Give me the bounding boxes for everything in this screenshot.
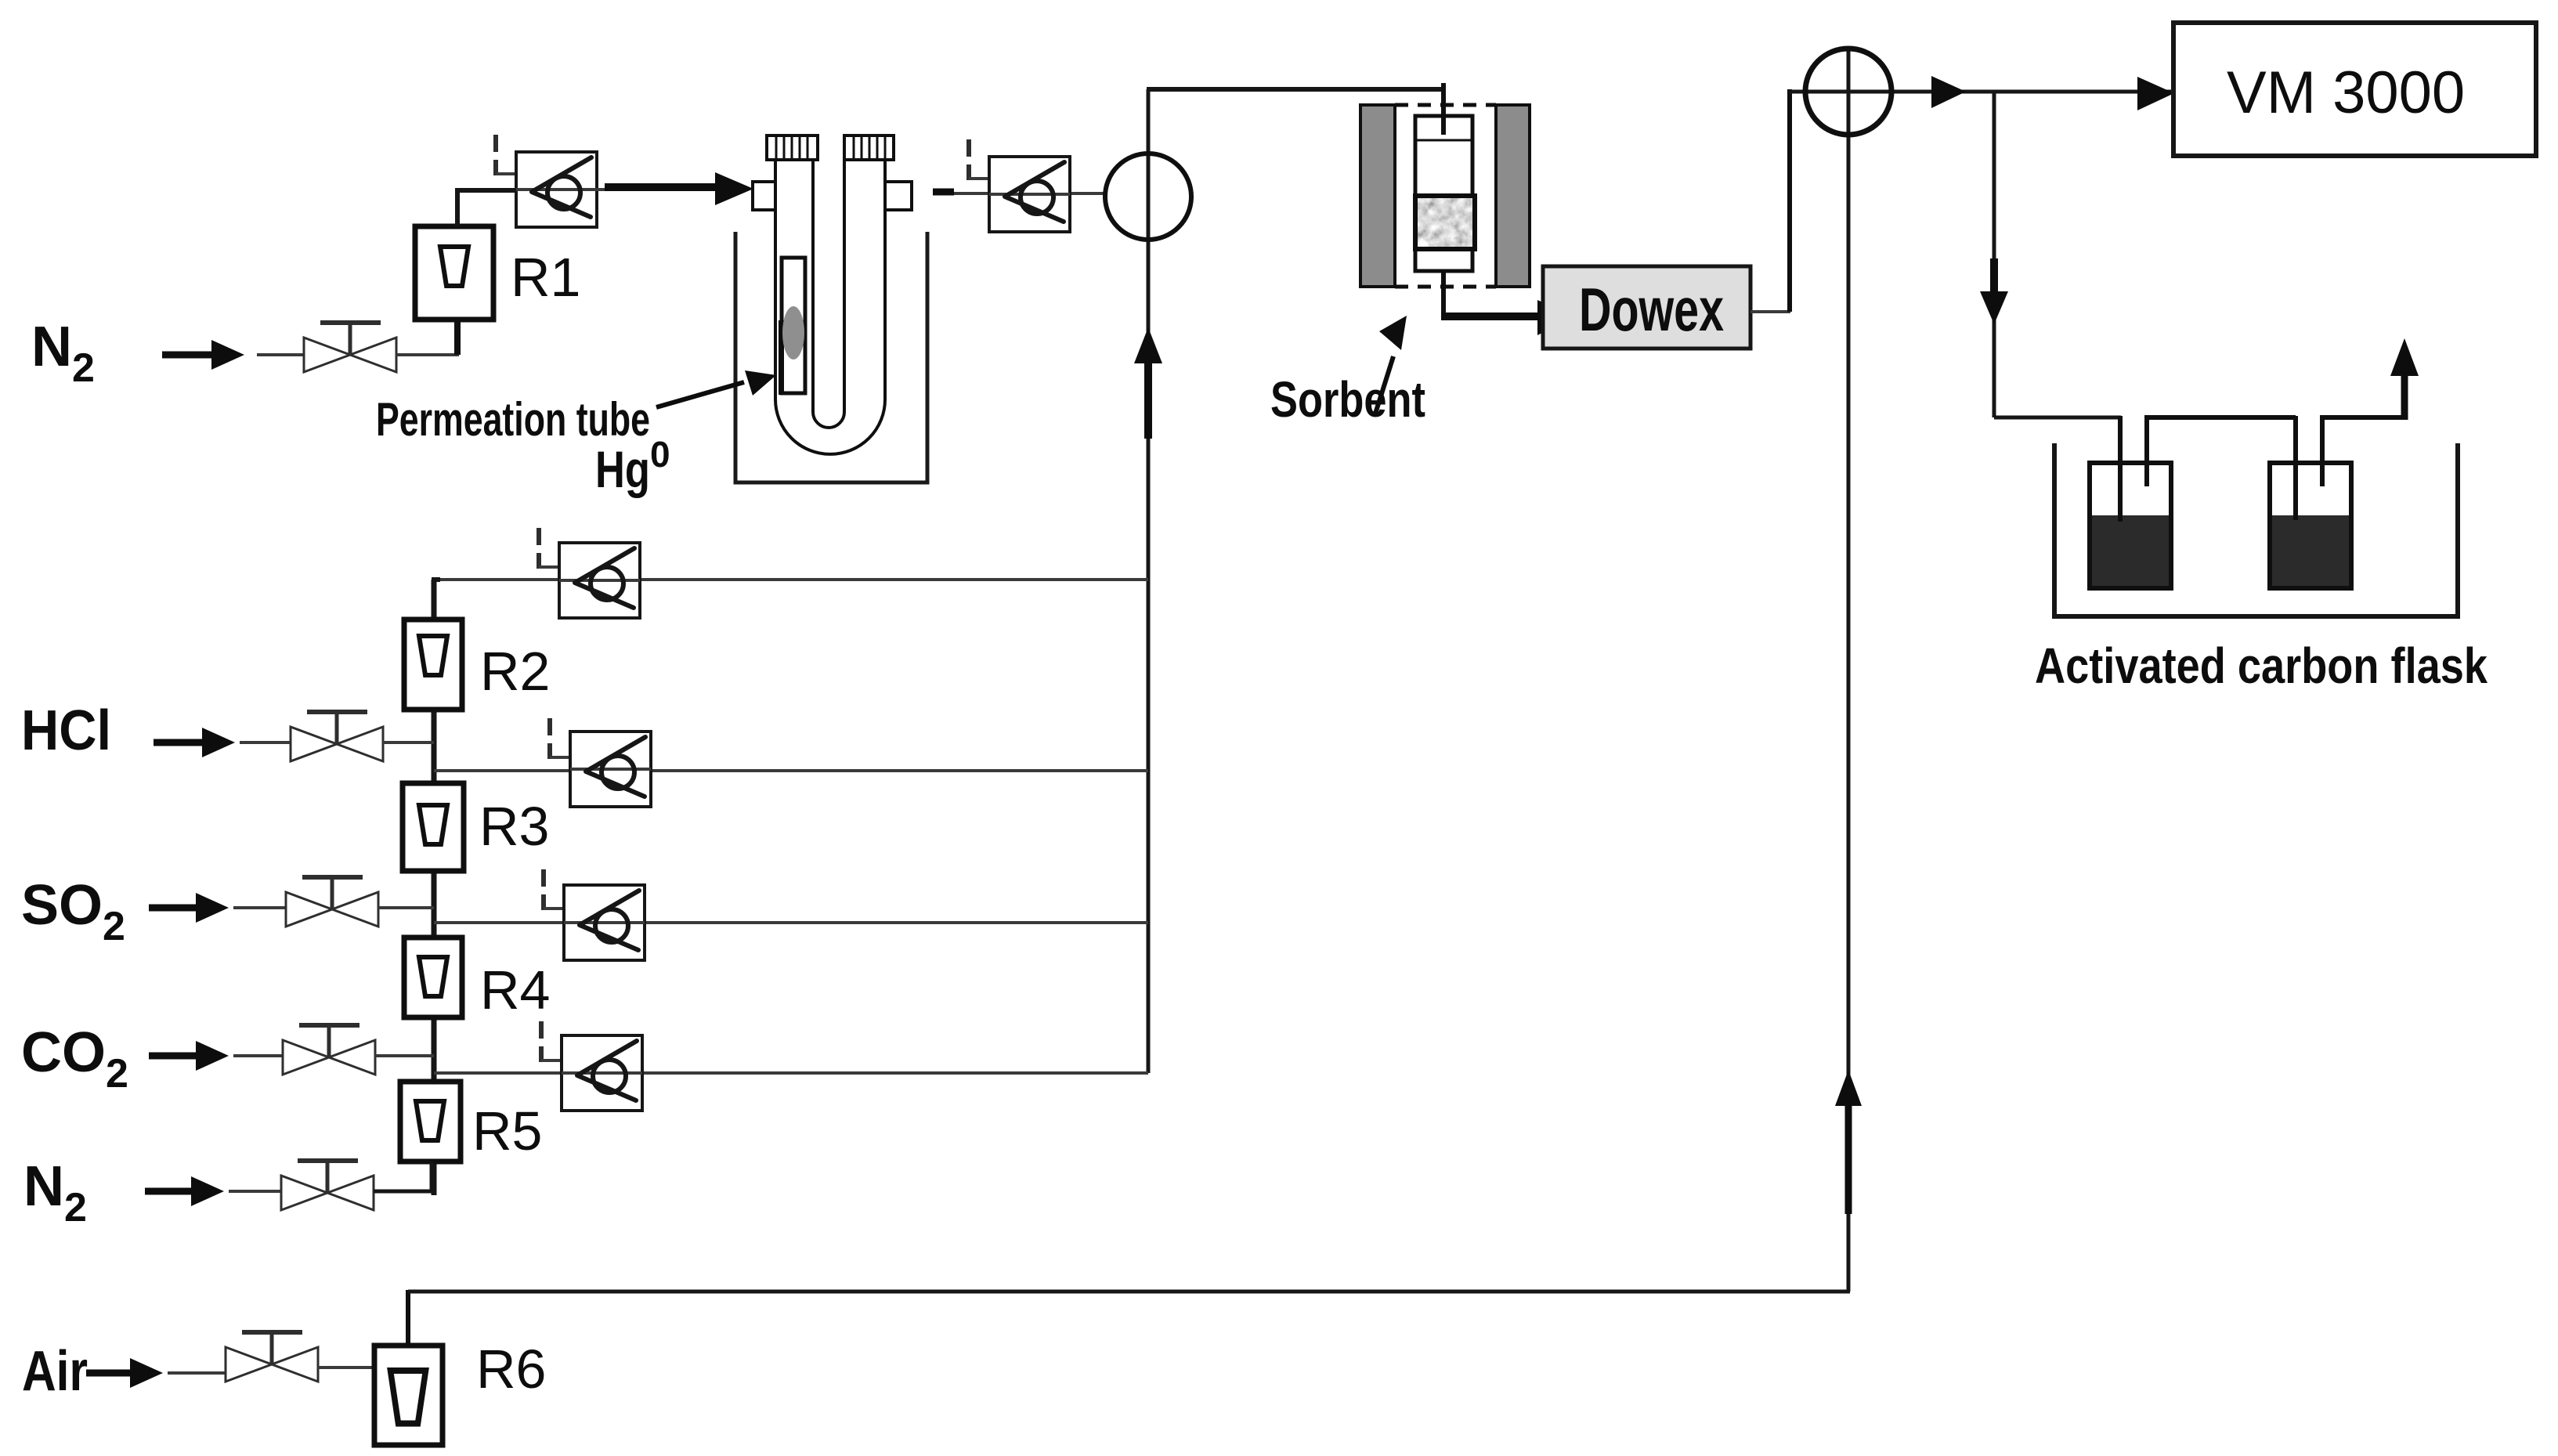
svg-text:Activated carbon flask: Activated carbon flask: [2035, 638, 2488, 694]
wire R4 row to check valve: [434, 921, 1148, 924]
outlet stub to CV2: [933, 192, 1105, 193]
flask 1 liquid: [2090, 515, 2171, 588]
flask 2 outlet tube: [2322, 417, 2404, 486]
wire to flask 1: [1994, 416, 2121, 420]
svg-text:0: 0: [650, 434, 670, 475]
flask 2: [2270, 463, 2351, 588]
furnace dashed boundary top: [1395, 103, 1496, 107]
flow arrow CO2: [149, 1041, 229, 1071]
VM 3000 box: [2173, 23, 2536, 156]
rotameter R6: [374, 1346, 443, 1445]
valve V4: [283, 1025, 375, 1075]
check valve CV-R4: [564, 885, 645, 960]
wire V2 to manifold: [383, 741, 434, 744]
wire R6 riser: [406, 1290, 410, 1346]
heater block right: [1496, 105, 1530, 287]
wire N2b to valve V5: [229, 1190, 282, 1193]
flow arrow N2: [162, 340, 244, 370]
Dowex box: [1543, 266, 1750, 349]
wire V5 to manifold jog: [374, 1162, 432, 1191]
valve V3: [286, 877, 378, 927]
thick arrow into Dowex: [1441, 300, 1574, 335]
wire R3 row to check valve: [434, 769, 1148, 772]
svg-text:Permeation tube: Permeation tube: [376, 393, 650, 446]
heater block left: [1360, 105, 1395, 287]
U-tube right cap: [844, 135, 894, 160]
wire V3 to manifold: [378, 906, 434, 909]
svg-text:R1: R1: [511, 247, 580, 308]
up arrow on M2 drop line: [1835, 1070, 1862, 1214]
check valve CV1: [516, 152, 597, 227]
flow arrow HCl: [154, 728, 235, 757]
mixing circle M1: [1105, 154, 1191, 240]
vent dashes CV2: [969, 139, 989, 180]
svg-text:Sorbent: Sorbent: [1270, 371, 1425, 428]
valve V6: [226, 1332, 318, 1382]
outlet port: [885, 182, 912, 210]
svg-text:R5: R5: [472, 1100, 542, 1162]
flow arrow SO2: [149, 893, 229, 923]
down arrow on branch: [1980, 258, 2008, 324]
svg-text:Hg: Hg: [595, 440, 650, 498]
check valve CV-R5: [562, 1035, 642, 1111]
rotameter R5: [400, 1082, 461, 1162]
svg-text:HCl: HCl: [21, 699, 111, 762]
flask 1: [2090, 463, 2171, 588]
svg-text:Air: Air: [22, 1340, 88, 1403]
arrowhead after M2: [1931, 76, 1966, 108]
branch wire down to flasks: [1993, 92, 1996, 417]
flow arrow Air: [86, 1358, 163, 1388]
thick arrow into impinger: [605, 172, 753, 205]
vent dashes CV-R3: [550, 718, 570, 759]
check valve CV-R3: [570, 732, 651, 807]
label arrow to sorbent: [1375, 316, 1407, 414]
wire V4 to manifold: [375, 1054, 434, 1057]
flask 2 liquid: [2270, 515, 2351, 588]
furnace inlet wire: [1441, 89, 1446, 135]
wire Air to valve V6: [168, 1371, 226, 1375]
svg-text:R6: R6: [476, 1339, 546, 1400]
check valve CV-R2: [559, 543, 640, 618]
valve V2: [291, 712, 383, 761]
rotameter R2: [404, 620, 462, 710]
svg-text:R3: R3: [479, 796, 549, 857]
water bath beaker: [735, 232, 927, 482]
bath container: [2054, 443, 2458, 616]
U-tube glass body: [775, 160, 885, 454]
wire CV1 out: [597, 188, 627, 191]
wire CO2 to valve V4: [233, 1054, 284, 1057]
bottom bus wire to M2 drop: [408, 1290, 1850, 1294]
vent dashes CV1: [496, 135, 516, 175]
vertical wire through M2 down to bottom bus: [1847, 49, 1851, 1292]
vent dashes CV-R4: [544, 869, 564, 910]
flask 1 inlet tube: [2118, 416, 2123, 522]
wire SO2 to valve V3: [233, 906, 287, 909]
sorbent bed: [1415, 196, 1475, 249]
flow arrow N2 second: [145, 1176, 224, 1206]
permeation tube Hg0: [779, 258, 805, 395]
wire V1 to rotameter R1: [396, 353, 459, 356]
vent dashes CV-R5: [541, 1021, 562, 1062]
label arrow to permeation tube: [656, 370, 776, 407]
vent dashes CV-R2: [539, 528, 559, 569]
U-tube left cap: [767, 135, 818, 160]
tube inlet dip line: [1441, 83, 1446, 135]
inlet port: [753, 182, 775, 210]
arrowhead into VM 3000: [2137, 77, 2174, 110]
wire R2 row to check valve: [434, 578, 1148, 581]
up arrow on main vertical: [1134, 327, 1162, 439]
corner R2 top: [434, 580, 440, 586]
flask 1 outlet tube: [2147, 417, 2296, 486]
main vertical line: [1147, 89, 1151, 1073]
wire HCl to valve V2: [240, 741, 291, 744]
riser wire to mixing point 2: [1787, 89, 1792, 312]
wire R1 to check valve CV1: [457, 190, 516, 226]
wire Dowex out: [1750, 310, 1790, 313]
flask 2 inlet tube: [2293, 416, 2298, 520]
manifold vertical wire: [432, 580, 437, 1195]
valve V1: [304, 323, 396, 372]
vent up arrow: [2390, 338, 2419, 420]
svg-text:R4: R4: [480, 959, 550, 1021]
rotameter R1: [415, 226, 493, 355]
wire N2 to valve V1: [257, 353, 305, 356]
rotameter R3: [403, 783, 464, 871]
valve V5: [281, 1161, 374, 1210]
mixing circle M2: [1805, 49, 1891, 135]
horizontal wire through M2: [1790, 90, 2176, 94]
svg-text:R2: R2: [480, 641, 550, 702]
furnace dashed boundary bottom: [1395, 285, 1496, 289]
rotameter R4: [404, 938, 462, 1017]
furnace outlet wire: [1441, 271, 1446, 314]
svg-text:Dowex: Dowex: [1579, 275, 1724, 344]
top bus wire to furnace: [1147, 87, 1443, 92]
svg-text:VM 3000: VM 3000: [2227, 60, 2465, 126]
check valve CV2: [989, 157, 1070, 232]
wire V6 to rotameter R6: [318, 1366, 374, 1369]
quartz tube: [1415, 116, 1472, 271]
wire R5 row to check valve: [434, 1071, 1148, 1075]
